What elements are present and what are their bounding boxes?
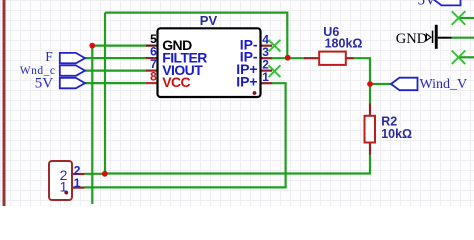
svg-text:VCC: VCC xyxy=(162,74,190,90)
wire R2 bottom to connector row xyxy=(105,154,370,174)
svg-text:F: F xyxy=(45,49,53,64)
no-connect X right top xyxy=(452,11,466,25)
svg-text:IP+: IP+ xyxy=(236,74,257,90)
svg-text:1: 1 xyxy=(60,178,68,194)
supply symbol GND bar thick xyxy=(435,25,438,49)
connector anchor dot xyxy=(64,191,68,195)
wire U6 to R2 top junction xyxy=(353,58,370,84)
pin stub U6 left xyxy=(304,57,319,59)
pin stub pin7 xyxy=(146,69,158,71)
svg-text:1: 1 xyxy=(262,70,269,84)
wire pin7 row xyxy=(85,69,146,71)
net flag 5V top (partial) xyxy=(433,0,461,5)
wire pin8 row xyxy=(85,82,146,84)
pin stub pin6 xyxy=(146,57,158,59)
net flag Wind_V xyxy=(391,78,418,91)
svg-text:GND: GND xyxy=(396,31,427,47)
pin stub pin2 xyxy=(261,69,273,71)
no-connect X pin4 xyxy=(269,40,281,52)
svg-text:5V: 5V xyxy=(417,0,436,9)
svg-text:1: 1 xyxy=(74,176,81,190)
net flag Wnd_c xyxy=(60,65,85,75)
no-connect X right bottom xyxy=(452,51,466,65)
pin stub pin5 xyxy=(146,44,158,46)
svg-text:PV: PV xyxy=(200,13,218,28)
wire pin1 loop xyxy=(85,83,286,187)
supply symbol GND triangle xyxy=(426,34,431,41)
op-amp / IC U? box xyxy=(158,28,261,97)
svg-text:Wind_V: Wind_V xyxy=(420,77,468,92)
wire X2 right xyxy=(459,56,474,58)
junction dot node C (connector row / vertical) xyxy=(102,171,108,177)
supply symbol GND pin line xyxy=(438,37,452,39)
pin stub pin3 xyxy=(261,57,273,59)
wire junction to Wind_V xyxy=(370,83,391,85)
wire vertical x92 GND net xyxy=(91,46,93,204)
pin stub pin1 xyxy=(261,82,273,84)
wire pin6 row xyxy=(85,57,146,59)
resistor R2 xyxy=(365,116,376,143)
svg-text:10kΩ: 10kΩ xyxy=(381,127,412,141)
pin stub U6 right xyxy=(346,57,354,59)
pin stub pin4 xyxy=(261,45,273,47)
svg-text:5V: 5V xyxy=(35,76,54,92)
pin stub R2 bottom xyxy=(369,142,371,155)
no-connect X pin2 xyxy=(269,65,281,77)
connector J1 xyxy=(49,161,72,200)
IC name anchor dot xyxy=(253,91,257,95)
wire GND supply net xyxy=(452,37,474,39)
wire pin3 to U6 xyxy=(272,57,305,59)
pin stub R2 top xyxy=(369,104,371,116)
wire X1 right xyxy=(459,17,474,19)
resistor U6 xyxy=(319,52,346,65)
junction dot node D (GND row / vertical) xyxy=(89,43,95,49)
wire connector pin2 xyxy=(85,173,106,175)
frame border left xyxy=(3,0,6,206)
pin stub connector pin1 xyxy=(72,187,85,189)
supply symbol GND bar thin xyxy=(432,31,434,43)
svg-text:8: 8 xyxy=(150,70,157,84)
net flag 5V xyxy=(60,78,85,88)
wire junction to R2 xyxy=(369,84,371,104)
junction dot node B (Wind_V/R2) xyxy=(367,81,373,87)
net flag F xyxy=(60,53,85,63)
wire vertical x105 xyxy=(104,13,106,174)
wire top loop xyxy=(105,13,287,58)
junction dot node A (pin3/U6) xyxy=(285,55,291,61)
pin stub connector pin2 xyxy=(72,173,85,175)
svg-text:180kΩ: 180kΩ xyxy=(325,37,363,51)
wire pin5 GND row xyxy=(92,44,146,46)
pin stub pin8 xyxy=(146,82,158,84)
